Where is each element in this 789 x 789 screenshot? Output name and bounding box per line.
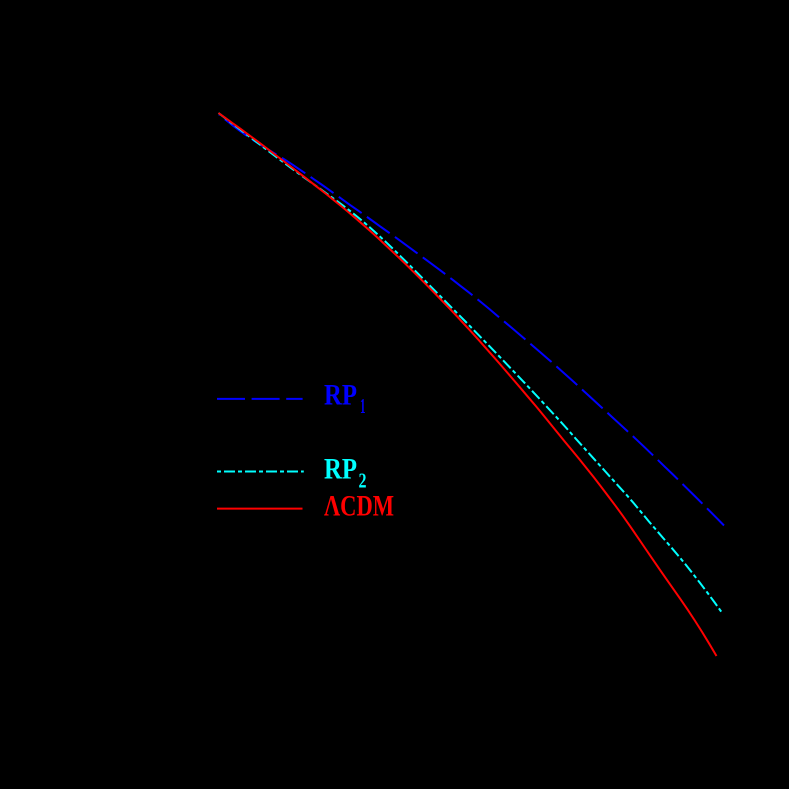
legend line RP2 <box>217 471 304 473</box>
legend line LCDM <box>217 508 303 510</box>
svg-text:RP: RP <box>324 379 357 412</box>
legend line RP1 <box>217 398 303 400</box>
curve RP2 (cyan dash-dot) <box>219 113 722 612</box>
svg-text:RP: RP <box>324 453 357 486</box>
curve LCDM (red solid) <box>219 113 717 656</box>
svg-text:1: 1 <box>360 394 366 418</box>
curve RP1 (blue long-dashed) <box>219 115 724 526</box>
svg-text:ΛCDM: ΛCDM <box>324 489 394 522</box>
